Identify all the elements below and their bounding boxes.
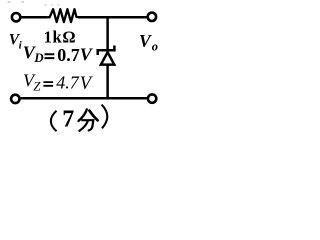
svg-text:Z: Z: [33, 78, 41, 93]
terminal bottom-right: [148, 94, 156, 102]
svg-text:o: o: [152, 40, 158, 54]
wire top-left: [21, 16, 48, 19]
svg-text:7: 7: [62, 106, 74, 132]
terminal top-right: [148, 13, 156, 21]
zener diode D triangle: [101, 52, 114, 64]
caption closing paren: [102, 105, 108, 129]
label VZ = 4.7V: [23, 70, 94, 93]
caption (7 分) : opening paren: [51, 111, 57, 132]
svg-text:V: V: [139, 31, 152, 51]
faint artifact specks top: [8, 1, 60, 6]
caption hanzi 分: [79, 109, 98, 130]
svg-text:0.7: 0.7: [57, 45, 79, 65]
terminal bottom-left: [11, 95, 19, 103]
zener diode D cathode bar: [98, 46, 115, 56]
resistor R 1kΩ: [48, 9, 79, 22]
wire zener to bottom rail: [106, 64, 109, 99]
label VD = 0.7V: [23, 43, 94, 66]
svg-text:1kΩ: 1kΩ: [44, 27, 77, 46]
svg-text:D: D: [33, 50, 44, 65]
svg-text:V: V: [80, 44, 94, 64]
svg-text:4.7: 4.7: [56, 73, 79, 93]
label Vi: [9, 32, 23, 52]
label Vo: [139, 31, 158, 54]
terminal top-left: [12, 13, 20, 21]
wire vertical to zener: [106, 16, 109, 51]
wire top-right: [78, 16, 147, 19]
bottom rail wire: [21, 97, 147, 100]
svg-text:V: V: [80, 74, 94, 94]
